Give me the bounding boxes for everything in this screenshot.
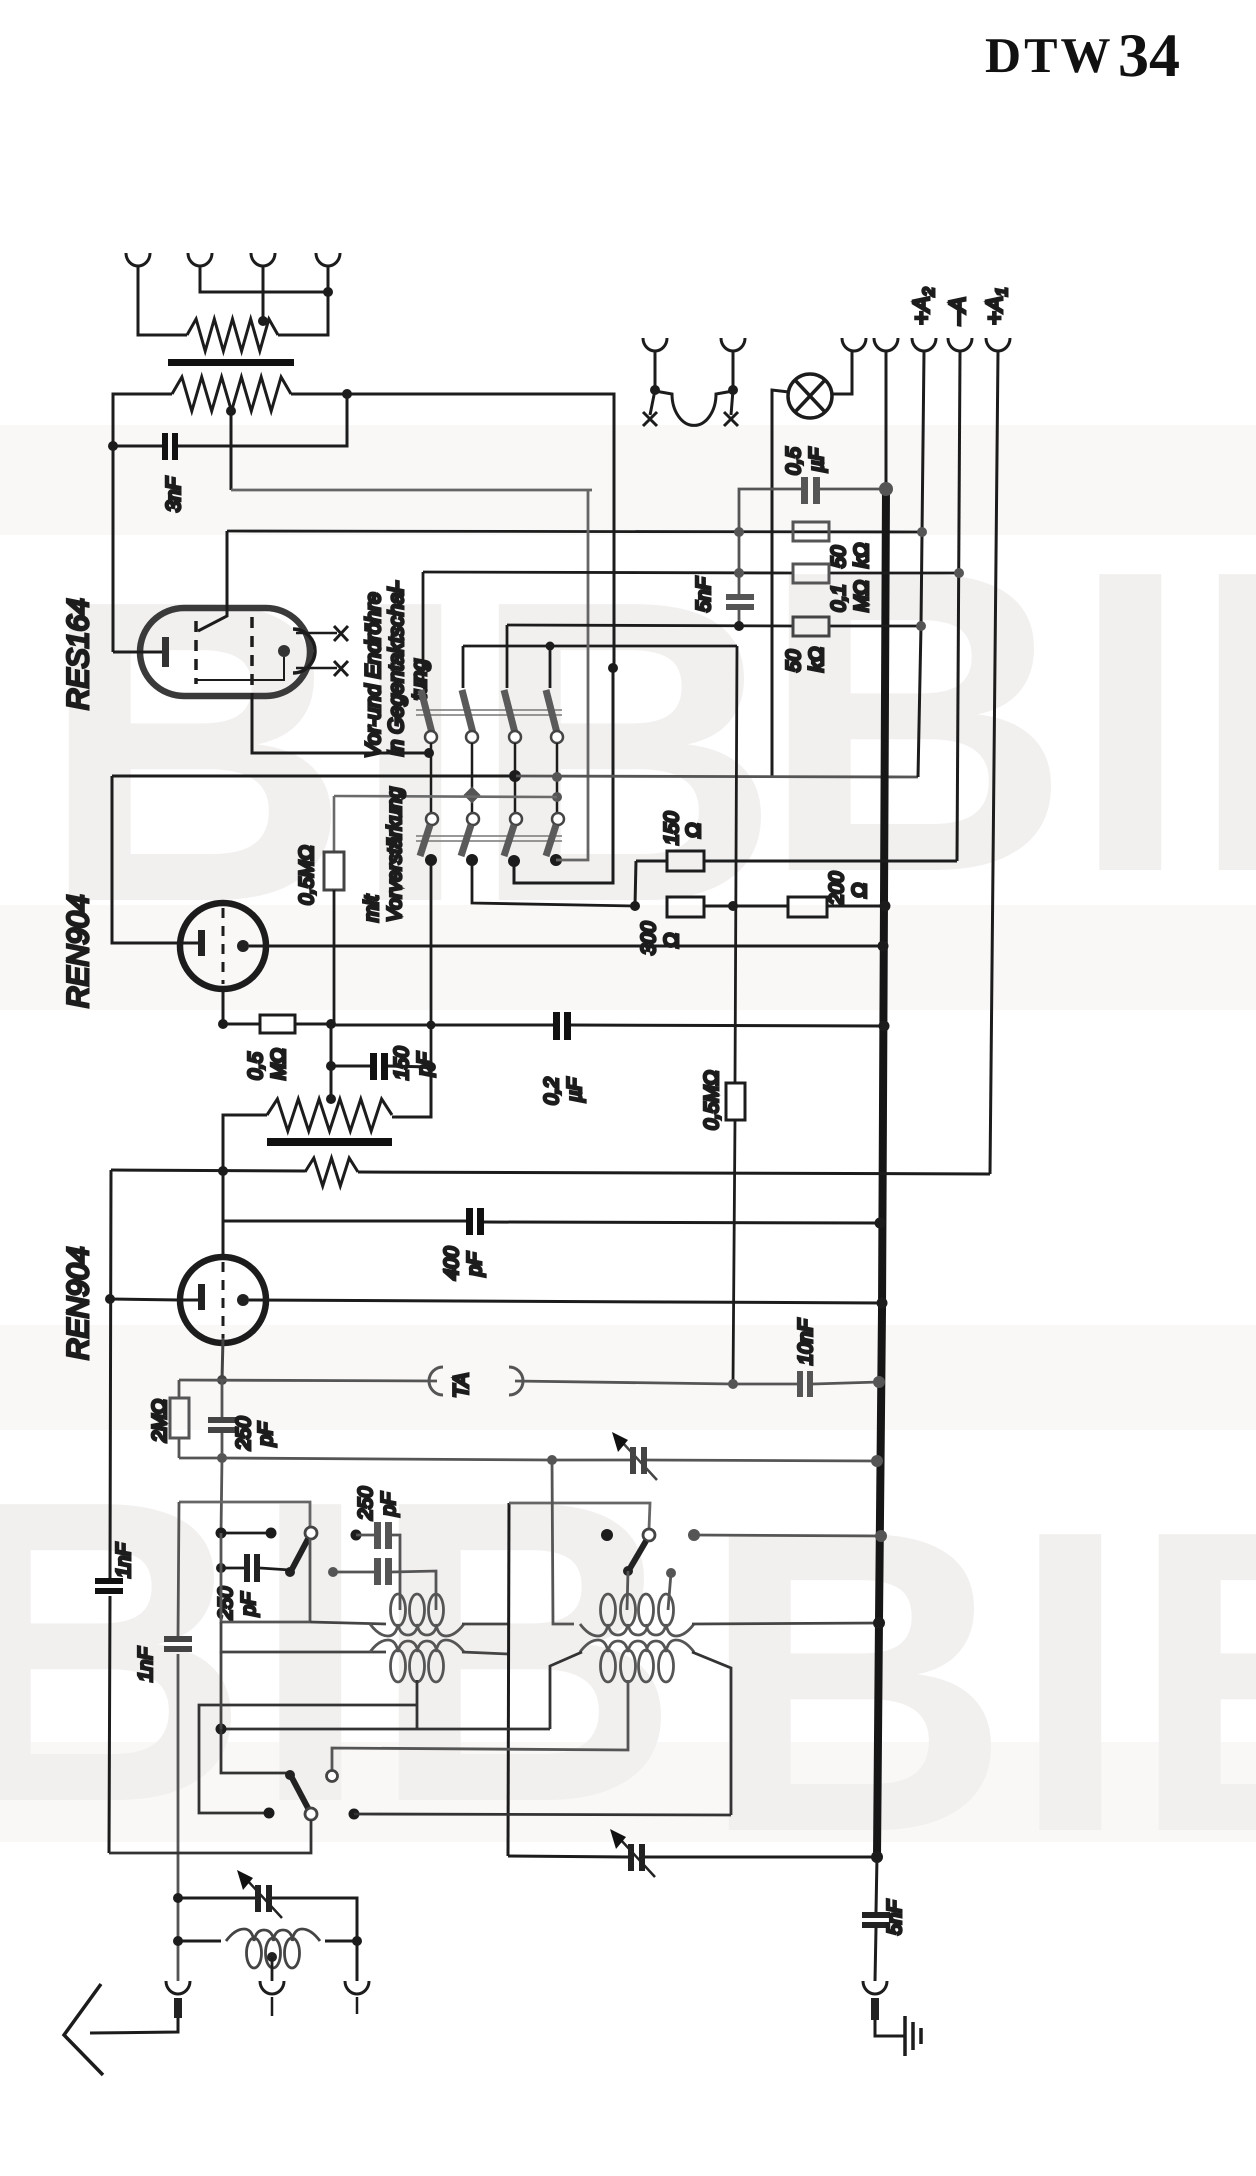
wire 0,5uF left drop	[739, 489, 801, 594]
variable capacitor trimmer1	[630, 1447, 647, 1474]
node +A2 y532	[917, 527, 927, 537]
wire winding2 top right lead to bus	[692, 1623, 879, 1624]
terminal -A	[948, 338, 972, 351]
switch SWb lever	[291, 1776, 309, 1810]
wire 0,1M line y573	[423, 572, 959, 573]
wire col4 circle to bank2	[556, 743, 559, 813]
svg-text:10nF: 10nF	[795, 1318, 817, 1365]
node bus y1382	[873, 1376, 885, 1388]
wire SWa below circle	[309, 1539, 312, 1622]
node x733 y906	[728, 901, 738, 911]
wire y1729 line	[221, 1728, 550, 1731]
node x222 y1380	[217, 1375, 227, 1385]
wire grid2 lead down	[252, 694, 429, 753]
switch bank2 contact circle 2	[467, 813, 479, 825]
capacitor 10nF	[797, 1371, 813, 1397]
wire 5nF to earth terminal	[875, 1928, 876, 1981]
node bus y1857	[871, 1851, 883, 1863]
svg-text:5nF: 5nF	[693, 576, 715, 612]
wire x331 down	[330, 1024, 333, 1099]
node bank2 contact 4	[550, 854, 562, 866]
wire +A1 rail	[990, 352, 998, 1174]
REN904-2 grid dashed	[222, 1262, 225, 1338]
node pot1 wiper	[226, 406, 236, 416]
node cathode junction	[218, 1019, 228, 1029]
wire y1460 to trimmer	[552, 1459, 630, 1462]
wire y1503 link to SWc	[509, 1503, 650, 1529]
filament lead bottom	[296, 667, 337, 670]
resistor 150 Ohm	[667, 851, 704, 871]
wire pot2 left to left rail	[113, 394, 172, 652]
capacitor 400pF	[466, 1208, 484, 1235]
wire col1 circle to bank2	[430, 743, 433, 813]
wire pot2 right	[291, 394, 614, 668]
wire winding1 top right lead to x508	[462, 1623, 508, 1626]
switch SWc pivot circle	[643, 1529, 655, 1541]
phone terminal A	[643, 338, 667, 351]
variable capacitor antenna	[255, 1885, 272, 1912]
node B	[728, 385, 738, 395]
resistor 2MOhm	[170, 1398, 189, 1438]
wire to 10nF	[733, 1383, 797, 1386]
node x733 y1384	[728, 1379, 738, 1389]
node x552 y1460	[547, 1455, 557, 1465]
stem A	[654, 351, 657, 390]
wire col3 circle to bank2	[514, 743, 517, 813]
svg-text:0,2: 0,2	[541, 1077, 563, 1105]
wire x223 down to 400pF corner	[222, 1171, 225, 1256]
node y531/x739	[734, 527, 744, 537]
variable capacitor osc	[628, 1844, 645, 1871]
resistor speaker-pot upper zigzag	[187, 319, 278, 351]
svg-text:REN904: REN904	[62, 895, 95, 1008]
wire x179 down to 1nF2	[178, 1502, 179, 1981]
node col1 y1067	[426, 1062, 436, 1072]
node SWc contact left	[601, 1529, 613, 1541]
node 250pF no4 dot	[328, 1567, 338, 1577]
bus rail thick	[877, 489, 886, 1857]
node 150pF left	[326, 1061, 336, 1071]
wire bias line y1171	[111, 1170, 990, 1174]
wire x221 y1622 down to winding lead	[221, 1622, 386, 1652]
node y906 left	[630, 901, 640, 911]
wire -A rail	[957, 352, 960, 861]
wire 150ohm line y861	[636, 860, 957, 863]
terminal coil right	[345, 1981, 369, 1994]
lamp cross	[795, 380, 825, 412]
wire 150 left down	[635, 861, 636, 906]
node x221 y1568	[216, 1563, 226, 1573]
wire top grid feed	[198, 531, 227, 631]
wire winding1 center tap down-left	[199, 1680, 417, 1813]
wire antenna lead	[90, 2018, 178, 2033]
wire contact4 jog to wiper riser	[556, 490, 588, 860]
switch bank1 lever 3	[504, 690, 515, 733]
REN904-1 grid dashed	[222, 908, 225, 984]
switch SWa pivot circle	[305, 1527, 317, 1539]
wire 3nF left	[113, 445, 162, 448]
wire RC line y1025 to bus	[331, 1025, 884, 1026]
tube RES164 envelope	[140, 608, 310, 696]
wire resistor to node	[295, 1023, 331, 1026]
trimmer1 arrow	[622, 1442, 657, 1480]
svg-text:in Gegentaktschal-: in Gegentaktschal-	[385, 581, 408, 756]
switch bank1 contact circle 3	[509, 731, 521, 743]
wire x735 riser/dropper	[733, 646, 737, 1383]
capacitor 5nF bottom	[862, 1912, 890, 1928]
switch SWa lever	[291, 1539, 308, 1571]
wire coil line y1941	[178, 1940, 357, 1943]
wire 50k lower line y626	[507, 625, 921, 626]
capacitor 5nF	[726, 594, 754, 610]
wire pot2 right leg	[392, 1067, 431, 1117]
X mark filament top	[334, 626, 348, 641]
terminal +A2	[912, 338, 936, 351]
switch bank2 contact circle 1	[426, 813, 438, 825]
node y1171 x223	[218, 1166, 228, 1176]
wire winding1 top lead left	[310, 1622, 386, 1624]
transformer core bar	[168, 359, 294, 366]
svg-text:3nF: 3nF	[163, 476, 185, 512]
svg-text:34: 34	[1118, 22, 1180, 90]
wire tap2 down	[668, 1573, 671, 1610]
filament lead top	[296, 632, 337, 635]
resistor 300 Ohm	[667, 897, 704, 917]
wire grid leak line 0,5M to col2/col4	[334, 796, 557, 797]
REN904-2 anode dot	[237, 1294, 249, 1306]
wire y1568 to 250pF no2	[221, 1567, 247, 1570]
node A	[650, 385, 660, 395]
switch bank1 contact circle 2	[466, 731, 478, 743]
node bank2 contact 3	[508, 855, 520, 867]
wire lever feed L	[221, 1729, 289, 1773]
svg-text:50: 50	[828, 546, 850, 568]
node bus y1461	[871, 1455, 883, 1467]
RES164 filament dot	[278, 645, 290, 657]
switch bank2 lever 1	[420, 825, 430, 856]
resistor 0,1MOhm	[793, 564, 829, 583]
node -A y573	[954, 568, 964, 578]
resistor 200 Ohm	[788, 897, 827, 917]
wire pot1 wiper down	[230, 411, 233, 490]
node bus y1536	[875, 1530, 887, 1542]
switch bank1 lever 2	[462, 690, 473, 733]
REN904-2 cathode tick	[180, 1299, 198, 1302]
transformer1 bottom winding	[370, 1640, 464, 1682]
X mark B	[724, 390, 738, 426]
node 0,5uF bus	[879, 482, 893, 496]
switch bank1 lever 4	[546, 690, 557, 733]
resistor 50k lower	[793, 617, 829, 636]
wire y906 middle	[704, 905, 788, 908]
resistor 0,5MOhm right	[726, 1083, 745, 1120]
switch bank2 contact circle 4	[552, 813, 564, 825]
terminal coil tap stem	[271, 1997, 274, 2016]
wire 2M branch	[178, 1380, 181, 1458]
node tube2 grid left	[105, 1294, 115, 1304]
svg-text:250: 250	[355, 1487, 377, 1521]
svg-text:pF: pF	[464, 1251, 486, 1277]
wire bus to 5nF	[876, 1857, 877, 1912]
wire 0,5M top riser	[333, 796, 336, 852]
wire lamp left down to anode rail	[772, 390, 789, 776]
tube REN904 no1 circle	[180, 903, 266, 989]
wire 200 to bus	[827, 905, 885, 908]
var cap antenna arrow	[247, 1880, 282, 1918]
wire col2+col4 feed line y646	[463, 646, 737, 688]
node col1 y1025	[427, 1021, 436, 1030]
node +A2 y626	[916, 621, 926, 631]
pot core bar	[267, 1138, 392, 1146]
lamp circle	[788, 374, 832, 418]
wire anode line y946 to bus	[249, 945, 883, 948]
capacitor 250pF no4	[374, 1558, 392, 1585]
node col3 on anode rail	[509, 770, 521, 782]
X mark A	[643, 390, 657, 426]
wire anode2 line y1301 to bus	[249, 1300, 882, 1303]
antenna coil winding	[226, 1929, 320, 1968]
switch bank2 lever 3	[504, 825, 514, 856]
node x178 y1898	[173, 1893, 183, 1903]
svg-text:kΩ: kΩ	[806, 647, 828, 672]
TA arcs	[429, 1367, 523, 1395]
svg-text:50: 50	[783, 650, 805, 672]
node T2-T4 junction	[323, 287, 333, 297]
wire antenna cap line y1898	[178, 1898, 357, 1941]
switch bank2 lever 4	[546, 825, 556, 856]
wire TA line left	[179, 1380, 437, 1381]
svg-text:REN904: REN904	[62, 1247, 95, 1360]
node winding2 tap2	[666, 1568, 676, 1578]
capacitor 250pF no1	[208, 1417, 238, 1433]
svg-text:–A: –A	[944, 297, 970, 326]
wire grid bias line y1459	[179, 1458, 552, 1460]
wire lamp right to terminal	[832, 352, 852, 394]
wire 10nF to bus	[813, 1382, 879, 1384]
svg-text:400: 400	[441, 1247, 463, 1280]
wire 0,5uF right to bus	[820, 488, 886, 491]
svg-text:250: 250	[215, 1587, 237, 1621]
resistor 50k upper	[793, 522, 829, 541]
svg-text:1nF: 1nF	[113, 1542, 135, 1578]
node x221 y1729	[216, 1724, 227, 1735]
svg-text:200: 200	[826, 872, 848, 906]
wire lever tip to winding2 tap	[627, 1571, 628, 1610]
switch SWb contact circle top	[327, 1771, 338, 1782]
node col2 grid leak diamond	[464, 787, 481, 804]
wire 0,5M bottom down	[333, 890, 336, 1024]
wire grid1 line to +A2 rail (y531)	[227, 531, 922, 532]
wire y1857 line	[508, 1856, 877, 1857]
wire 250pF no2 to lever tip	[260, 1568, 290, 1570]
wire anode to left rail	[113, 651, 162, 654]
wire tube1 bottom	[222, 989, 225, 1024]
svg-text:0,5MΩ: 0,5MΩ	[701, 1070, 723, 1130]
antenna symbol	[64, 1984, 103, 2075]
terminal antenna1	[166, 1981, 190, 1994]
terminal coil tap	[260, 1981, 284, 1994]
svg-text:0,5MΩ: 0,5MΩ	[296, 845, 318, 905]
capacitor 250pF no3	[374, 1522, 392, 1549]
svg-text:µF: µF	[806, 446, 828, 473]
svg-text:0,1: 0,1	[828, 584, 850, 612]
resistor small zigzag	[305, 1158, 358, 1186]
wire tube2 bottom	[222, 1338, 223, 1380]
stem B	[732, 351, 735, 390]
svg-text:kΩ: kΩ	[851, 543, 873, 568]
node SWc contact right	[688, 1529, 700, 1541]
resistor 0,5MOhm horizontal	[260, 1015, 295, 1033]
capacitor 150pF	[370, 1053, 388, 1080]
transformer2 top winding	[580, 1594, 694, 1636]
wire T2 down to jumper	[200, 266, 328, 292]
wire contact pair y1533	[221, 1532, 271, 1535]
node SWb contact left	[264, 1808, 275, 1819]
X mark filament bottom	[334, 661, 348, 676]
svg-text:mit: mit	[361, 894, 383, 922]
wire earth to ground	[875, 2020, 905, 2036]
shorting link arc	[655, 391, 733, 425]
resistor output-pot lower zigzag	[172, 377, 291, 411]
terminal earth	[863, 1981, 887, 1994]
node bus y906	[880, 901, 891, 912]
var cap osc arrow	[620, 1839, 655, 1877]
node 3nF left	[108, 441, 118, 451]
node x357 y1941	[352, 1936, 362, 1946]
wire 150pF line	[331, 1066, 431, 1067]
REN904-1 anode dot	[237, 940, 249, 952]
filament inner lead	[196, 657, 284, 680]
wire TA line right	[515, 1381, 733, 1384]
svg-text:pF: pF	[238, 1591, 260, 1617]
svg-text:MΩ: MΩ	[851, 580, 873, 612]
terminal bus	[874, 338, 898, 351]
RES164 anode bar	[162, 637, 169, 667]
wire winding1 bottom right lead	[462, 1652, 508, 1654]
svg-text:250: 250	[233, 1417, 255, 1451]
svg-text:MΩ: MΩ	[268, 1048, 290, 1080]
wire 250pF no4 right down to loop	[392, 1571, 436, 1610]
ground symbol	[905, 2016, 921, 2056]
speaker terminal 2	[188, 253, 212, 266]
wire 250pF no3 right down to loop	[392, 1535, 400, 1610]
svg-text:150: 150	[661, 812, 683, 845]
capacitor 0,2uF	[553, 1012, 571, 1040]
switch bank1 contact circle 1	[425, 731, 437, 743]
tube REN904 no2 circle	[180, 1257, 266, 1343]
wire left rail x110	[109, 1170, 111, 1853]
wire contact1 down to RC node	[430, 860, 433, 1117]
svg-text:Vorverstärkung: Vorverstärkung	[384, 787, 406, 922]
node SWb contact right	[349, 1809, 360, 1820]
node col4 feed	[546, 642, 555, 651]
speaker terminal 4	[316, 253, 340, 266]
terminal lamp	[842, 338, 866, 351]
speaker terminal 3	[251, 253, 275, 266]
wire x613 down to col3 contact	[514, 668, 613, 883]
wire coil right to terminal	[356, 1941, 359, 1981]
svg-text:1nF: 1nF	[135, 1646, 157, 1682]
svg-text:µF: µF	[564, 1076, 586, 1103]
node bus y1026	[879, 1021, 890, 1032]
node x222 y1458	[217, 1453, 227, 1463]
wire tube2 left lead	[110, 1299, 180, 1300]
wire winding2 bottom right lead down	[692, 1652, 731, 1815]
wire col3 feed from 50k line y625	[506, 625, 509, 688]
switch SWb pivot circle	[305, 1808, 317, 1820]
switch SWa box top	[179, 1502, 310, 1527]
switch bank1 lever 1	[421, 690, 432, 733]
REN904-1 cathode bar	[198, 930, 205, 956]
node x739 y626	[734, 621, 744, 631]
svg-text:150: 150	[391, 1047, 413, 1080]
bus rail thin top	[885, 352, 888, 489]
wire anode supply rail y776	[112, 775, 516, 778]
svg-text:2MΩ: 2MΩ	[149, 1399, 171, 1443]
node grid2/col1	[424, 748, 434, 758]
wire winding2 bottom left lead down	[550, 1652, 582, 1729]
wire x221 feed from above	[220, 1652, 223, 1729]
svg-text:Ω: Ω	[849, 883, 871, 898]
wire col2 circle to bank2	[471, 743, 474, 813]
node x739 y573	[734, 568, 744, 578]
svg-text:Vor-und Endröhre: Vor-und Endröhre	[362, 592, 385, 758]
wire y1814 line to x731	[354, 1814, 731, 1815]
svg-text:Ω: Ω	[683, 823, 705, 838]
node col4 on anode rail	[552, 772, 562, 782]
wire 3nF branch down	[178, 394, 347, 446]
terminal antenna1 stem	[174, 1998, 182, 2018]
wire x553 riser	[552, 1460, 574, 1624]
capacitor 1nF no1	[95, 1578, 123, 1594]
terminal +A1	[986, 338, 1010, 351]
svg-text:BIB: BIB	[700, 1442, 1256, 1922]
node bank2 contact 1	[425, 854, 437, 866]
switch bank2 linkage bars	[416, 836, 562, 841]
svg-text:300: 300	[638, 922, 660, 955]
node bank2 contact 2	[466, 854, 478, 866]
switch bank2 contact circle 3	[510, 813, 522, 825]
REN904-1 cathode tick	[181, 942, 198, 945]
wire 400pF line y1222	[223, 1221, 880, 1223]
wire +A2 rail	[918, 352, 924, 777]
switch SWc lever	[629, 1541, 646, 1570]
wire pot1 wiper line y490	[231, 489, 592, 492]
node x221 y1533	[216, 1528, 227, 1539]
node pot1 tap	[258, 316, 268, 326]
node bus y1223	[875, 1218, 886, 1229]
resistor 0,5MOhm grid leak	[324, 852, 344, 890]
wire SWc right contact to bus	[694, 1535, 881, 1536]
wire cathode to resistor	[223, 1023, 260, 1026]
transformer2 bottom winding	[580, 1640, 694, 1682]
wire contact2 down to 300ohm node	[472, 860, 635, 906]
node 250pF col dot	[351, 1530, 362, 1541]
wire x221 y1533-1568-1622	[221, 1533, 310, 1622]
capacitor 3nF	[162, 433, 178, 460]
REN904-2 cathode bar	[198, 1284, 205, 1310]
RES164 grid 1 dashed	[194, 621, 198, 684]
svg-text:TA: TA	[450, 1373, 473, 1398]
node pot2 right / 3nF branch	[342, 389, 352, 399]
RES164 grid 2 dashed	[250, 617, 254, 694]
wire 5nF bottom	[738, 610, 741, 626]
transformer1 top winding	[370, 1594, 464, 1636]
node x178 y1941	[173, 1936, 183, 1946]
svg-text:5nF: 5nF	[884, 1899, 906, 1935]
node x331 y1024	[326, 1019, 336, 1029]
wire 250pF no3 stub	[356, 1534, 374, 1537]
